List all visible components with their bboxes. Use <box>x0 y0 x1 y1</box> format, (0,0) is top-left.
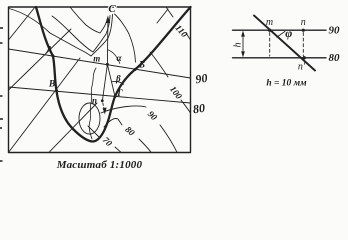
wavy contour W1 (inner valley contour near C) <box>70 7 107 33</box>
phi arc <box>277 31 285 37</box>
point B <box>134 68 137 71</box>
h dimension arrowheads <box>241 31 245 37</box>
svg-text:h: h <box>233 43 244 48</box>
arrowhead at C <box>106 16 111 24</box>
svg-text:80: 80 <box>192 101 206 117</box>
arrowhead below n <box>103 108 107 115</box>
dashed vertical from m <box>269 33 271 57</box>
svg-text:n: n <box>301 17 306 28</box>
thick thalweg curve through A,V,G,B to top-right corner <box>36 7 191 142</box>
contour 110 line <box>157 7 191 40</box>
contour E1 (east slope from C) <box>115 14 136 62</box>
point n <box>101 99 104 102</box>
top horizontal line 90 <box>233 29 327 31</box>
slanted thick line through m and n' <box>254 16 315 71</box>
svg-text:С: С <box>108 3 116 15</box>
svg-text:80: 80 <box>329 52 341 64</box>
contour U2 (45-deg line through A area) <box>9 29 72 90</box>
line m to n <box>103 64 108 100</box>
bottom horizontal line 80 <box>233 57 327 59</box>
map frame <box>9 7 191 153</box>
svg-text:n: n <box>92 96 97 106</box>
point A <box>52 55 55 58</box>
point V <box>55 89 58 92</box>
point n top <box>302 29 305 32</box>
contour 70 line <box>88 126 121 152</box>
point G <box>114 95 117 98</box>
dashed vertical from n <box>302 33 304 57</box>
wavy contour W2 (outer valley contour to C) <box>52 16 110 53</box>
closed oval contour <box>79 103 100 134</box>
contour D1 valley V (from top-left corner through valley tip) <box>9 9 113 57</box>
svg-text:Масштаб 1:1000: Масштаб 1:1000 <box>56 159 143 171</box>
north arrow m to C <box>106 21 109 64</box>
contour 80 line <box>104 118 151 152</box>
alpha arc <box>108 50 120 64</box>
contour 90 line <box>101 106 177 152</box>
svg-text:m: m <box>266 17 273 28</box>
point m' <box>268 29 271 32</box>
point m <box>106 63 109 66</box>
contour U1 (45-deg line top-left) <box>9 7 36 40</box>
scan specks on left edge <box>0 27 3 162</box>
svg-text:Г: Г <box>116 88 123 98</box>
svg-text:Б: Б <box>138 61 145 71</box>
svg-text:n': n' <box>298 62 306 73</box>
svg-text:В: В <box>48 80 55 90</box>
dashed continuation below n <box>103 103 105 110</box>
svg-text:90: 90 <box>195 71 209 87</box>
svg-text:90: 90 <box>329 25 341 37</box>
contour U3 (45-deg line from bottom-left corner through B) <box>9 58 80 152</box>
point n' <box>303 56 306 59</box>
profile line A-B (straight through А and Б) <box>9 49 191 78</box>
svg-text:φ: φ <box>285 26 292 40</box>
profile line V-G (straight through В and Г) <box>9 87 191 103</box>
svg-text:β: β <box>115 74 121 84</box>
stream wavy line <box>89 68 96 139</box>
svg-text:А: А <box>45 45 52 55</box>
contour 100 line <box>150 52 191 113</box>
line m to G <box>107 64 115 96</box>
svg-text:h = 10 мм: h = 10 мм <box>266 79 307 89</box>
svg-text:m: m <box>93 53 100 63</box>
h dimension line <box>242 34 244 55</box>
beta arc <box>112 82 124 85</box>
contour U4 (45-deg line bottom) <box>49 103 97 152</box>
